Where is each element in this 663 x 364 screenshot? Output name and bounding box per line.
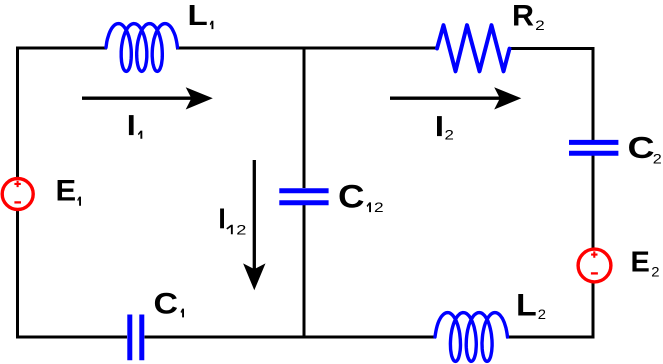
capacitor C1 plate 2 (139, 315, 144, 361)
svg-text:2: 2 (653, 153, 662, 167)
svg-text:L: L (516, 287, 537, 322)
capacitor C2 plate 1 (569, 140, 618, 145)
svg-text:C: C (628, 131, 655, 165)
wire bottom right segment (506, 336, 595, 339)
svg-text:2: 2 (374, 201, 384, 216)
capacitor C1 plate 1 (127, 315, 132, 361)
wire top left segment (16, 47, 107, 50)
wire bottom left segment (16, 336, 127, 339)
capacitor C12 plate 2 (279, 200, 328, 205)
wire left vertical bottom segment (16, 208, 19, 339)
source E2 minus (591, 272, 598, 274)
source E1 plus (14, 181, 20, 187)
svg-text:E: E (631, 247, 650, 279)
current arrow I2 head (494, 87, 521, 109)
source E1 circle (2, 179, 33, 210)
current arrow I1 head (186, 87, 213, 109)
source E1 minus (14, 201, 21, 203)
svg-text:E: E (56, 175, 77, 207)
wire middle vertical lower segment (303, 205, 306, 339)
capacitor C2 plate 2 (569, 151, 618, 156)
capacitor C12 plate 1 (279, 188, 328, 193)
wire right vertical lower segment (592, 282, 595, 339)
label I12 (220, 209, 224, 229)
svg-text:2: 2 (445, 128, 454, 143)
current arrow I1 shaft (82, 97, 192, 100)
svg-text:2: 2 (538, 307, 546, 322)
source E2 circle (578, 249, 611, 282)
inductor L1 (106, 24, 178, 72)
svg-text:L: L (188, 0, 208, 32)
wire middle vertical upper segment (303, 47, 306, 189)
inductor L2 (435, 313, 508, 362)
resistor R2 (437, 25, 510, 71)
svg-text:2: 2 (651, 265, 659, 280)
svg-text:C: C (338, 180, 364, 215)
wire top middle segment (176, 47, 436, 50)
wire right vertical upper segment (592, 47, 595, 141)
label I2 (437, 116, 442, 136)
wire left vertical top segment (16, 47, 19, 180)
current arrow I12 shaft (253, 160, 256, 270)
label I1 (129, 115, 134, 135)
current arrow I12 head (243, 263, 265, 290)
wire right vertical middle segment (592, 156, 595, 251)
svg-text:2: 2 (535, 18, 545, 33)
current arrow I2 shaft (390, 97, 500, 100)
wire top right segment (510, 47, 595, 50)
wire bottom middle segment (145, 336, 437, 339)
svg-text:C: C (154, 287, 179, 321)
source E2 plus (591, 251, 597, 257)
svg-text:R: R (512, 0, 534, 33)
svg-text:2: 2 (236, 223, 246, 238)
